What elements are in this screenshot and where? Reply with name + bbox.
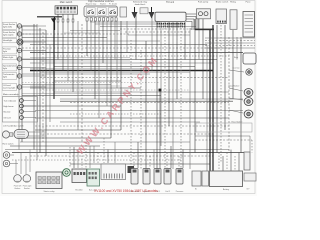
license light L1 xyxy=(229,69,252,75)
svg-text:Headlight: Headlight xyxy=(3,39,13,42)
throttle switch narrow box xyxy=(120,7,127,17)
svg-text:Relay: Relay xyxy=(230,2,236,4)
neutral switch xyxy=(63,169,71,177)
svg-text:Rectifier: Rectifier xyxy=(75,189,83,192)
svg-text:flasher: flasher xyxy=(24,187,30,190)
rear flasher light right xyxy=(229,88,253,97)
svg-text:High beam: High beam xyxy=(4,106,14,108)
tail brake light xyxy=(229,98,253,106)
wire thick feed with down arrow xyxy=(37,17,62,30)
svg-text:Rear: Rear xyxy=(234,57,239,59)
svg-text:light (left): light (left) xyxy=(3,26,12,29)
svg-text:Speedometer: Speedometer xyxy=(3,65,16,68)
front brake switch xyxy=(216,1,229,24)
ground arrow G2 xyxy=(149,7,155,19)
svg-text:Neutral: Neutral xyxy=(4,111,11,114)
fuse box F1 xyxy=(243,2,255,37)
AC generator xyxy=(87,169,100,192)
svg-text:Tachometer: Tachometer xyxy=(3,73,15,76)
right handlebar switch assembly SW2 xyxy=(84,0,118,17)
svg-text:Meter assembly: Meter assembly xyxy=(3,93,19,96)
svg-text:light: light xyxy=(3,50,7,53)
dimmer output wires xyxy=(29,132,47,136)
taillight assembly outline xyxy=(196,123,252,132)
svg-text:Engine stop: Engine stop xyxy=(86,3,97,6)
fuel pump P1 xyxy=(197,2,211,19)
svg-text:Coil 2: Coil 2 xyxy=(165,191,170,193)
junction top right xyxy=(195,29,214,31)
meter assembly box xyxy=(3,93,38,122)
rear flasher light left xyxy=(229,110,253,118)
svg-text:TCI unit: TCI unit xyxy=(166,1,174,4)
svg-text:GY: GY xyxy=(246,189,250,191)
wire bundle top right xyxy=(205,38,255,48)
svg-text:Starter: Starter xyxy=(100,3,106,6)
dimmer switch pill xyxy=(14,130,29,139)
left lamp devices column xyxy=(2,22,46,90)
rear lamp labels xyxy=(229,68,243,124)
svg-text:flasher: flasher xyxy=(15,187,21,190)
front flasher lamp left xyxy=(14,175,22,190)
svg-text:Sidestand relay: Sidestand relay xyxy=(133,1,148,4)
svg-text:Position: Position xyxy=(3,48,12,51)
svg-text:XV1100 and XV750 1984 to 1997: XV1100 and XV750 1984 to 1997 US models xyxy=(94,189,158,193)
svg-text:Starter relay: Starter relay xyxy=(44,190,55,193)
solenoid box xyxy=(202,171,209,186)
svg-text:Horn switch: Horn switch xyxy=(3,143,15,146)
border frame xyxy=(2,1,255,194)
svg-text:light: light xyxy=(3,67,7,70)
svg-text:Fuel pump: Fuel pump xyxy=(198,2,209,4)
main switch connector bullets xyxy=(57,19,59,22)
svg-text:diode block: diode block xyxy=(135,4,146,6)
wire harness horizontal runs xyxy=(5,22,252,164)
coil label xyxy=(133,1,148,7)
svg-text:Oil level: Oil level xyxy=(4,118,12,120)
wire harness vertical runs xyxy=(19,14,252,171)
svg-text:Fuse: Fuse xyxy=(246,2,252,4)
handlebar switch connector bullets xyxy=(86,18,117,21)
svg-text:Rear flasher: Rear flasher xyxy=(229,86,240,88)
front flasher lamp right xyxy=(23,175,32,190)
flasher drop wires xyxy=(16,150,30,175)
svg-text:Battery: Battery xyxy=(223,188,229,191)
svg-text:Pressure: Pressure xyxy=(176,190,184,193)
fuse link box xyxy=(244,173,256,191)
junction dot mid xyxy=(159,89,162,92)
ground arrow G1 xyxy=(132,7,138,19)
svg-text:Main switch: Main switch xyxy=(60,1,73,4)
starter relay box xyxy=(36,172,62,193)
TCI output wires nested xyxy=(186,14,198,30)
rear brake light switch xyxy=(234,53,256,64)
svg-text:Front flasher: Front flasher xyxy=(3,31,16,34)
svg-text:Left handlebar switch: Left handlebar switch xyxy=(3,125,24,128)
ignition coil tall box xyxy=(244,152,250,170)
svg-text:Meter light: Meter light xyxy=(3,56,14,59)
battery B1 xyxy=(210,171,243,191)
flasher relay xyxy=(230,2,237,30)
starter motor box xyxy=(192,171,201,191)
sidestand relay box xyxy=(140,8,148,14)
svg-text:light: light xyxy=(3,76,7,79)
svg-text:light (right): light (right) xyxy=(3,34,14,37)
svg-text:License: License xyxy=(233,68,241,70)
main switch SW1 xyxy=(55,1,78,14)
svg-text:Front flasher: Front flasher xyxy=(3,23,16,26)
svg-text:Fr. brake: Fr. brake xyxy=(109,4,118,6)
svg-text:Right handlebar switches: Right handlebar switches xyxy=(88,0,115,3)
front left horn circle xyxy=(3,152,10,159)
pickup coil dark box xyxy=(128,166,135,173)
svg-text:Turn indicator: Turn indicator xyxy=(4,100,17,103)
clutch switch pill xyxy=(2,131,13,138)
rectifier regulator xyxy=(72,169,87,192)
connector block bottom xyxy=(101,164,126,180)
front right horn circle xyxy=(3,160,10,167)
TCI unit U1 xyxy=(155,1,186,27)
svg-text:warning light: warning light xyxy=(3,87,16,90)
svg-text:Brake switch: Brake switch xyxy=(216,1,229,4)
bottom sensor and coil row xyxy=(130,169,183,194)
